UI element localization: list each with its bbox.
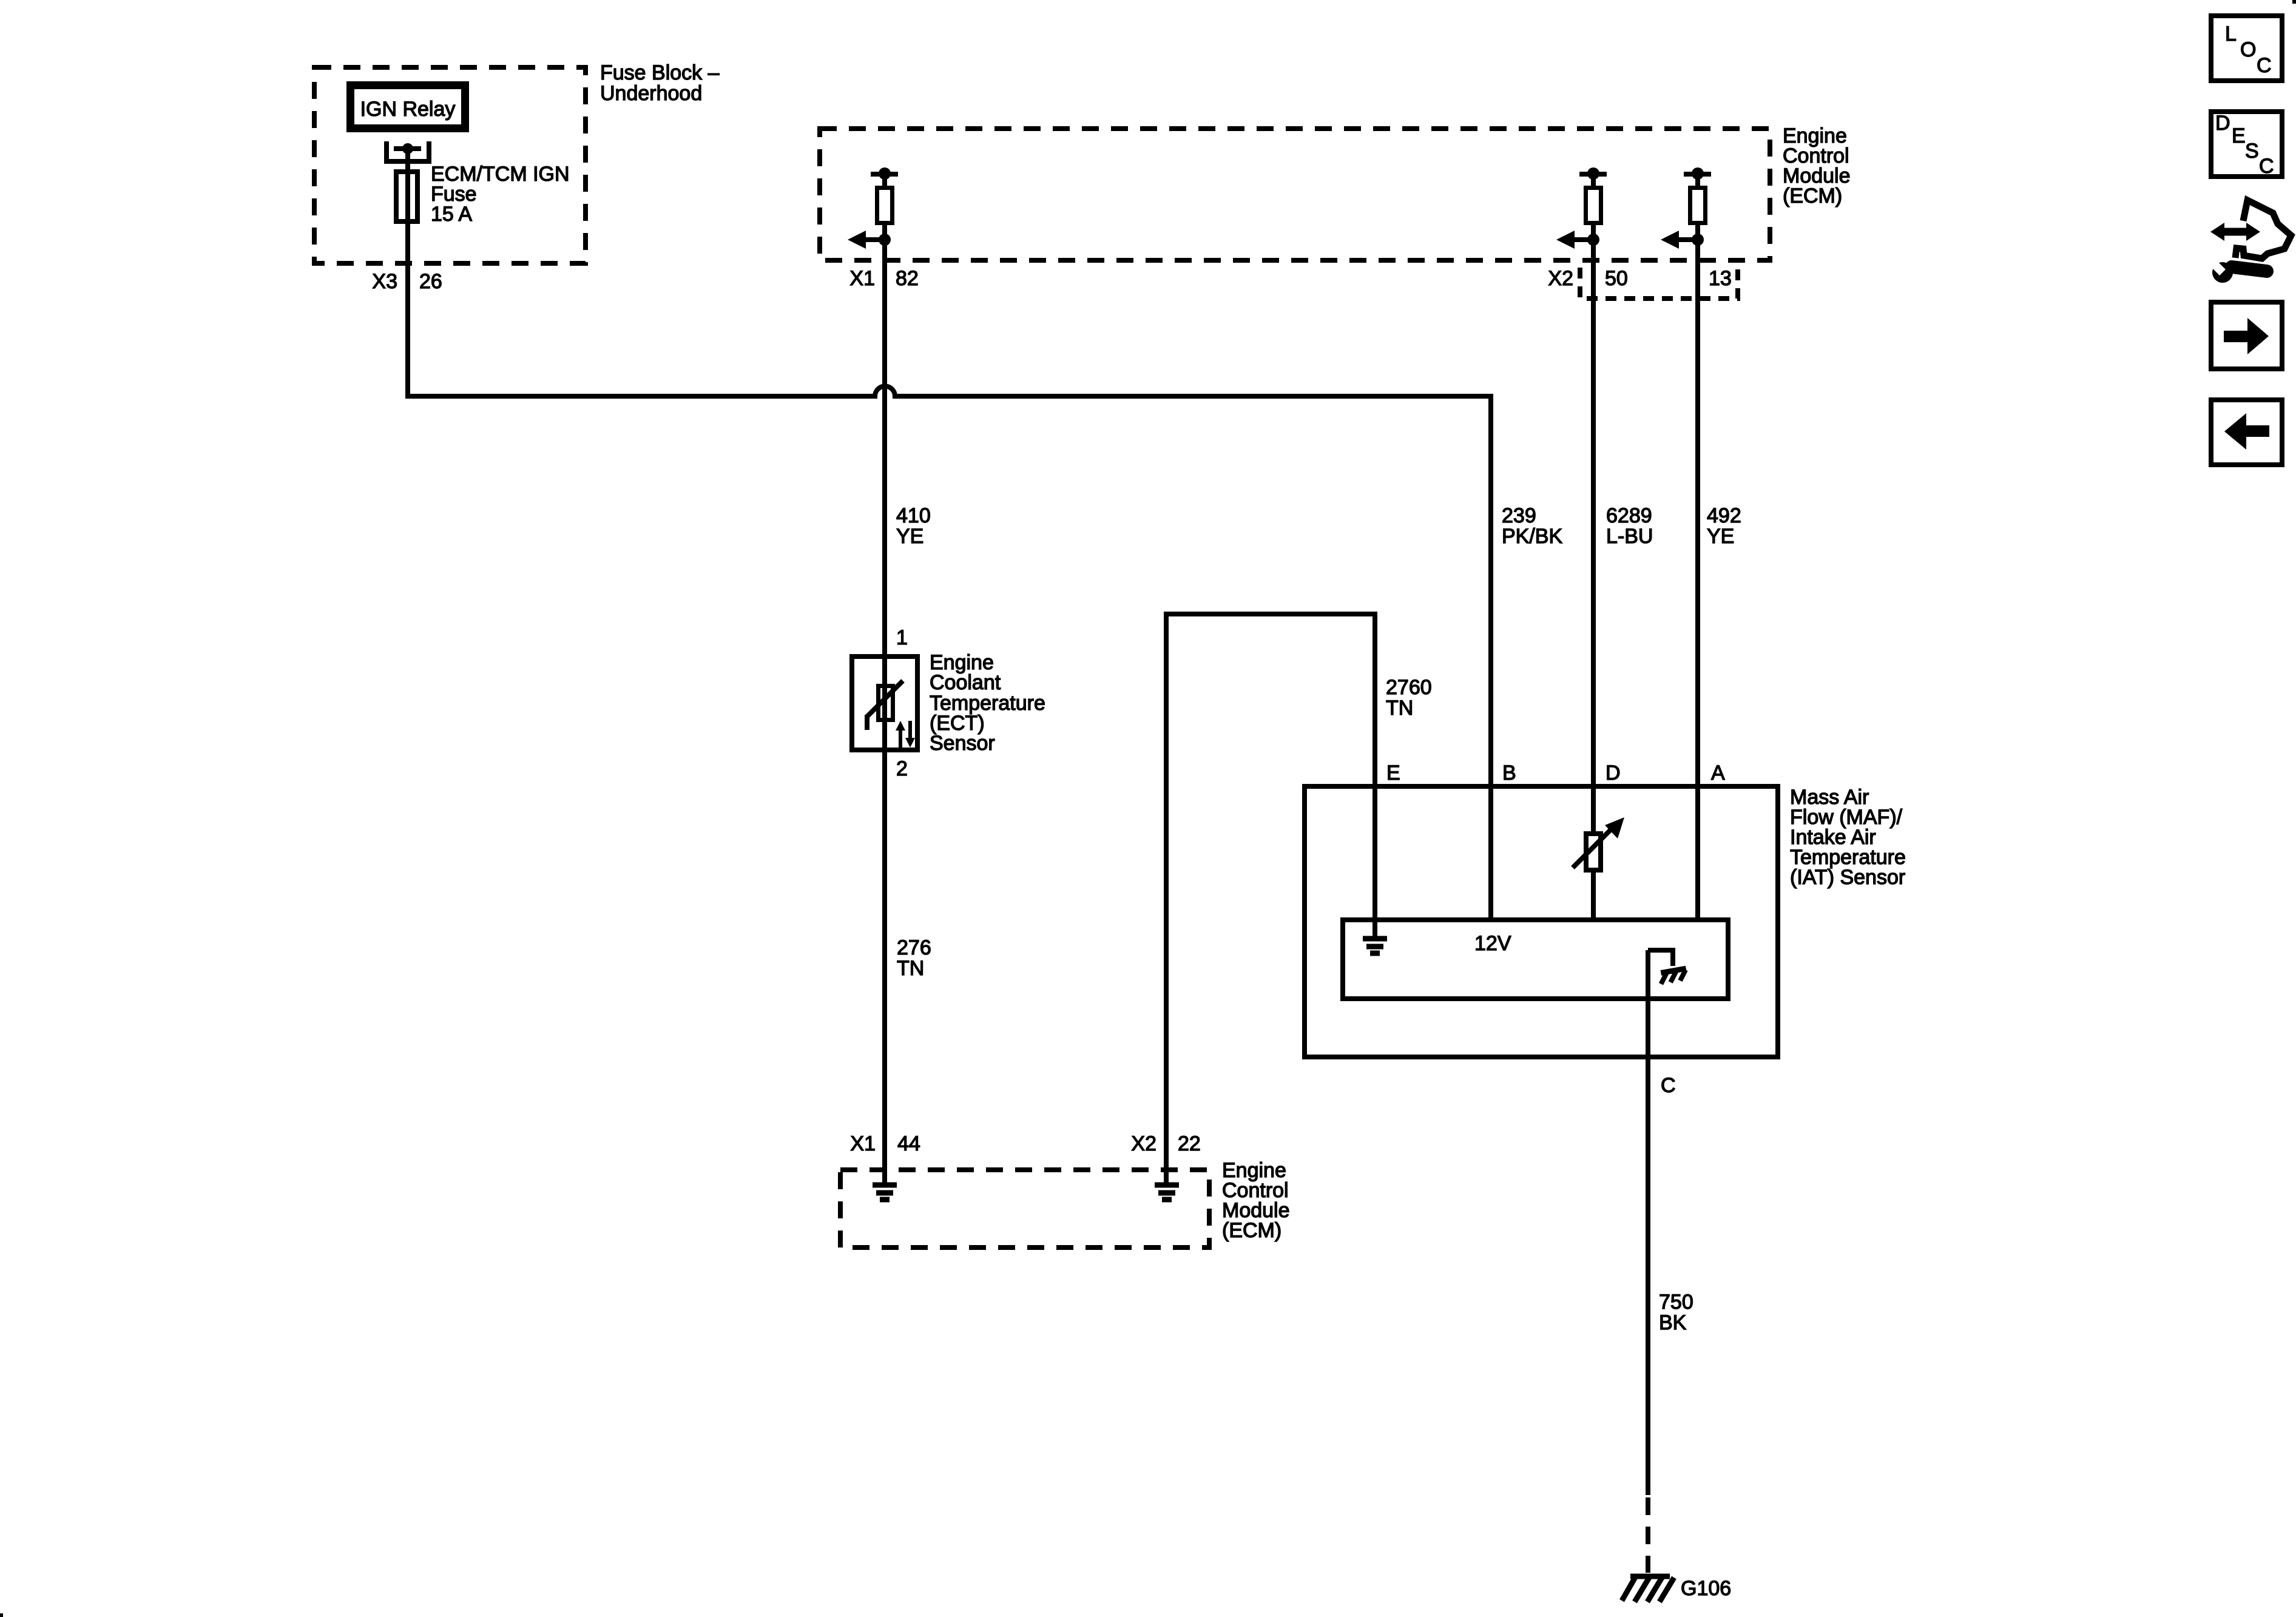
wire pin E inside MAF to ground: [1373, 786, 1377, 939]
chassis ground symbol inside inner box: [1659, 968, 1687, 984]
svg-text:A: A: [1711, 761, 1725, 785]
svg-text:2: 2: [896, 757, 908, 780]
ground symbol at ECM X2-22: [1155, 1185, 1179, 1200]
svg-text:(IAT) Sensor: (IAT) Sensor: [1790, 866, 1905, 889]
connector X2 dotted box: [1580, 268, 1738, 299]
svg-text:X2: X2: [1131, 1132, 1156, 1155]
ground G106 chassis symbol: [1622, 1575, 1674, 1602]
label Engine Control Module (ECM) bottom: [1222, 1159, 1290, 1242]
svg-text:276: 276: [897, 936, 931, 959]
icon box arrow left: [2211, 400, 2282, 465]
label wire 2760 TN: [1386, 676, 1432, 720]
fuse block dashed box: Fuse Block - Underhood: [314, 67, 586, 263]
svg-text:YE: YE: [1707, 525, 1734, 548]
svg-text:2760: 2760: [1386, 676, 1432, 699]
icon box LOC: [2211, 16, 2282, 81]
thermistor symbol ECT: [867, 681, 915, 748]
label Engine Coolant Temperature (ECT) Sensor: [930, 651, 1045, 755]
svg-text:B: B: [1502, 761, 1516, 785]
wire pin C hook inside inner box: [1648, 950, 1673, 966]
label Fuse Block - Underhood: [600, 61, 720, 105]
page corner mark top right: [2292, 0, 2296, 4]
svg-text:Fuse Block –: Fuse Block –: [600, 61, 720, 84]
wire pin D inside MAF: [1591, 786, 1596, 834]
wire pin B inside MAF: [1488, 786, 1493, 920]
svg-text:44: 44: [897, 1132, 920, 1155]
svg-text:X1: X1: [850, 1132, 876, 1155]
svg-text:12V: 12V: [1474, 932, 1511, 955]
label connector X2 pin 22: [1131, 1132, 1200, 1155]
svg-text:L: L: [2225, 22, 2237, 46]
fuse F1 ECM/TCM IGN Fuse 15 A: [396, 169, 417, 224]
svg-text:E: E: [2232, 124, 2246, 147]
svg-text:15 A: 15 A: [431, 203, 472, 226]
svg-text:410: 410: [896, 504, 931, 527]
relay K1 IGN Relay: [351, 86, 465, 129]
svg-text:Underhood: Underhood: [600, 82, 702, 105]
svg-text:C: C: [2257, 54, 2272, 77]
dashed wire segment to G106: [1646, 1497, 1650, 1573]
ECM driver pin symbol X2-13: [1661, 167, 1711, 249]
wire fuse output down to corner: [405, 224, 410, 399]
label connector X3 pin 26: [372, 270, 442, 293]
svg-text:50: 50: [1605, 267, 1628, 290]
svg-text:IGN Relay: IGN Relay: [360, 98, 456, 121]
svg-text:G106: G106: [1681, 1577, 1731, 1600]
label wire 276 TN: [897, 936, 931, 980]
svg-text:BK: BK: [1659, 1311, 1687, 1334]
icon box DESC: [2211, 112, 2282, 178]
ECM top dashed box: [820, 129, 1770, 260]
svg-text:TN: TN: [1386, 697, 1413, 720]
relay contact clip: [387, 141, 429, 161]
svg-text:26: 26: [419, 270, 442, 293]
svg-text:X2: X2: [1548, 267, 1573, 290]
wire 239 horizontal run from fuse to MAF pin B with hop over 410 YE wire: [405, 387, 1493, 396]
icon hand with wrench and double arrow: [2209, 200, 2291, 283]
wire 2760 TN from MAF pin E up and over and down to ECM X2-22: [1166, 614, 1375, 1184]
ECM driver pin symbol X1-82: [848, 167, 898, 249]
svg-text:D: D: [1606, 761, 1621, 785]
svg-text:S: S: [2245, 140, 2259, 163]
ECT sensor box: [852, 657, 917, 750]
label ECM/TCM IGN Fuse 15 A: [431, 163, 570, 226]
icon box arrow right: [2211, 302, 2282, 369]
wire 492 YE from X2-13 down to MAF pin A: [1695, 240, 1700, 786]
svg-text:C: C: [1661, 1074, 1676, 1097]
label connector X2 pins 50 and 13: [1548, 267, 1731, 290]
svg-text:750: 750: [1659, 1291, 1693, 1314]
wire 276 TN from ECT pin 2 to ECM X1-44: [882, 752, 887, 1184]
MAF variable resistor symbol: [1573, 817, 1624, 870]
svg-text:YE: YE: [896, 525, 923, 548]
svg-text:X1: X1: [849, 267, 875, 290]
ECM bottom dashed box: [840, 1170, 1209, 1247]
MAF/IAT sensor outer box: [1305, 786, 1778, 1057]
svg-text:D: D: [2215, 112, 2230, 135]
svg-text:Sensor: Sensor: [930, 732, 995, 755]
page corner mark bottom left: [0, 1613, 3, 1617]
wire 410 YE from X1-82 down to ECT pin 1: [882, 240, 887, 654]
svg-text:1: 1: [896, 626, 908, 649]
svg-text:C: C: [2259, 155, 2274, 178]
label wire 750 BK: [1659, 1291, 1693, 1334]
svg-text:6289: 6289: [1606, 504, 1652, 527]
ground symbol inside MAF inner box: [1363, 939, 1387, 953]
svg-text:L-BU: L-BU: [1606, 525, 1653, 548]
MAF inner box 12V: [1343, 920, 1728, 999]
svg-text:Coolant: Coolant: [930, 671, 1001, 694]
svg-text:22: 22: [1178, 1132, 1201, 1155]
svg-text:E: E: [1386, 761, 1400, 785]
svg-text:82: 82: [896, 267, 919, 290]
svg-text:(ECM): (ECM): [1783, 184, 1842, 208]
wire pin A inside MAF: [1695, 786, 1700, 920]
wire through ECT sensor: [882, 654, 887, 752]
wire relay to fuse: [405, 149, 410, 172]
svg-text:492: 492: [1707, 504, 1741, 527]
label connector X1 pin 44: [850, 1132, 920, 1155]
svg-text:(ECM): (ECM): [1222, 1219, 1281, 1242]
label wire 410 YE: [896, 504, 931, 548]
label Mass Air Flow (MAF)/ Intake Air Temperature (IAT) Sensor: [1790, 786, 1906, 889]
svg-text:13: 13: [1709, 267, 1732, 290]
label connector X1 pin 82: [849, 267, 918, 290]
label wire 6289 L-BU: [1606, 504, 1653, 548]
svg-text:O: O: [2240, 38, 2256, 61]
ground symbol at ECM X1-44: [873, 1185, 897, 1200]
svg-text:239: 239: [1502, 504, 1536, 527]
svg-text:PK/BK: PK/BK: [1502, 525, 1562, 548]
label wire 492 YE: [1707, 504, 1741, 548]
wire 6289 L-BU from X2-50 down to MAF pin D: [1591, 240, 1596, 786]
wire 239 PK/BK vertical down to MAF pin B: [1488, 396, 1493, 786]
svg-text:X3: X3: [372, 270, 397, 293]
wire 750 BK from pin C down: [1646, 950, 1650, 1495]
label Engine Control Module (ECM) top: [1783, 124, 1851, 208]
label wire 239 PK/BK: [1502, 504, 1562, 548]
ECM driver pin symbol X2-50: [1556, 167, 1607, 249]
svg-text:TN: TN: [897, 957, 924, 980]
